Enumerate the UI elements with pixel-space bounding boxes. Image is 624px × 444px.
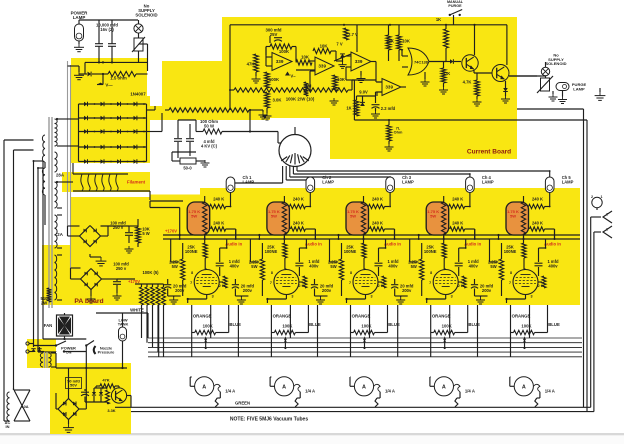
label 240K lower ch5 [532, 221, 543, 226]
svg-text:10K: 10K [320, 44, 329, 49]
svg-text:25V: 25V [270, 32, 278, 37]
svg-text:400v: 400v [230, 263, 240, 268]
resistor 2.25K ch4 [420, 243, 424, 296]
wire box bottom ch4 [418, 234, 444, 239]
rail B+ 235 [163, 234, 580, 236]
ground under 3.0K [263, 113, 272, 120]
svg-text:Ohm: Ohm [394, 131, 403, 135]
label 2A [56, 232, 64, 237]
bias resistor box ch1 [187, 202, 210, 235]
label 25K 100NE ch5 [504, 245, 517, 254]
wire channel verticals ch3 [330, 229, 395, 262]
wire tube top ch2 [285, 268, 287, 271]
capacitor 1mfd ch3 [375, 247, 387, 276]
wire channel boundary drop ch5 [478, 305, 530, 357]
low tank lamp [119, 327, 127, 341]
svg-text:LAMP: LAMP [243, 179, 255, 184]
highlight current board left extension [162, 61, 224, 118]
label AC IN [5, 420, 11, 429]
svg-text:240 K: 240 K [452, 221, 463, 226]
diode bias A [92, 388, 96, 402]
tube pin labels ch3 [349, 271, 384, 299]
label 240K lower ch1 [213, 221, 224, 226]
resistor vert in box ch1 [203, 196, 207, 243]
ground Q2 [501, 96, 510, 103]
svg-text:100NE: 100NE [185, 249, 198, 254]
svg-text:200v: 200v [175, 288, 185, 293]
label GREEN [235, 401, 250, 406]
nand gate 74C138 [408, 48, 446, 75]
svg-text:+170V: +170V [165, 229, 177, 234]
resistor 2.25K ch1 [181, 243, 185, 296]
ground under 47K [252, 76, 261, 83]
op-amp U1A 339 [272, 53, 292, 71]
wire channel boundary drop ch3 [318, 305, 370, 357]
resistor 3.3K [106, 390, 116, 413]
svg-text:PA board: PA board [74, 298, 103, 305]
svg-text:1/4 A: 1/4 A [225, 389, 235, 394]
meter M3 [354, 377, 373, 396]
pot wiper ch5 [523, 336, 526, 349]
label 25K 100NE ch1 [185, 245, 198, 254]
current board top rail [229, 24, 507, 91]
svg-text:LAMP: LAMP [482, 179, 494, 184]
junction dots rails ch1 [179, 238, 237, 240]
wire bias block [85, 386, 131, 409]
label 1/4A ch2 [305, 389, 315, 394]
svg-text:7: 7 [190, 281, 192, 285]
wire opamp mesh [296, 25, 406, 87]
svg-text:5W: 5W [271, 213, 277, 218]
resistor 10K U1A out [296, 55, 312, 66]
svg-text:10K: 10K [386, 39, 395, 44]
highlight power-on switch block [27, 339, 56, 368]
wire lamp-cap top bus [79, 20, 138, 36]
svg-text:74C138: 74C138 [414, 60, 429, 65]
resistor 240K upper ch3 [369, 204, 390, 208]
lamp Ch2 [306, 177, 315, 193]
resistor 240K upper ch4 [449, 204, 470, 208]
svg-text:Audio In: Audio In [544, 241, 561, 246]
transformer T1 secondary winding 5 [55, 255, 57, 300]
svg-text:8: 8 [430, 271, 432, 275]
svg-text:Audio In: Audio In [464, 241, 481, 246]
diode string row 5 [79, 159, 147, 164]
label 1/4A ch3 [385, 389, 395, 394]
ground far right [595, 88, 606, 100]
lamp Ch4 [466, 177, 475, 193]
label Ch2 LAMP [322, 175, 334, 184]
resistor 50W box [172, 158, 202, 171]
capacitor 2.2mfd [372, 105, 396, 111]
capacitor 20mfd ch2 [232, 279, 239, 296]
ground 4mfd [201, 160, 210, 167]
svg-text:240 K: 240 K [452, 197, 463, 202]
fan label [44, 323, 53, 328]
resistor 10K 5W [136, 227, 150, 244]
pot wiper ch4 [443, 336, 446, 349]
wire meter leads ch2 [270, 333, 300, 408]
resistor 25K 100NE ch5 [522, 243, 526, 269]
capacitor 4mfd B [186, 124, 194, 152]
lamp Ch1 [226, 177, 235, 193]
wire box bottom ch5 [497, 234, 523, 239]
svg-text:3: 3 [370, 295, 372, 299]
V- arrow U1A [285, 72, 296, 79]
variac T3 [4, 388, 30, 421]
svg-text:LAMP: LAMP [322, 179, 334, 184]
svg-text:100K: 100K [269, 77, 280, 82]
wire channel verticals ch2 [250, 229, 315, 262]
wire channel verticals ch4 [410, 229, 475, 262]
svg-text:Audio In: Audio In [384, 241, 401, 246]
wire lamp Ch2 lead [309, 193, 311, 208]
svg-text:100K: 100K [521, 324, 532, 329]
terminals AC aux [26, 342, 44, 353]
svg-text:A: A [202, 384, 206, 390]
svg-text:240 K: 240 K [213, 197, 224, 202]
svg-text:7 V: 7 V [336, 42, 342, 47]
label 2.25K 5W ch5 [488, 260, 499, 269]
label Ch1 LAMP [243, 175, 255, 184]
wire lower opamp [357, 92, 383, 103]
vacuum tube V0 envelope [279, 135, 311, 167]
label 100K (5) [142, 270, 159, 275]
svg-text:5W: 5W [510, 213, 516, 218]
transistor Q1 [462, 55, 478, 71]
svg-text:10K: 10K [337, 77, 346, 82]
svg-text:3: 3 [291, 295, 293, 299]
resistor 2K cathode ch5 [538, 276, 546, 288]
svg-text:ON: ON [66, 350, 72, 355]
resistor 75 Ohm [354, 113, 587, 151]
resistor 510 2W [41, 288, 52, 305]
capacitor 10000mfd B [108, 36, 116, 55]
tube V0 pins [278, 127, 309, 165]
resistor 240K lower ch4 [450, 227, 475, 239]
lamp Ch5 [545, 177, 554, 193]
capacitor 10000mfd A [95, 36, 103, 55]
svg-text:100NE: 100NE [265, 249, 278, 254]
vacuum tube V4 [433, 270, 458, 295]
label ORANGE ch1 [193, 314, 212, 319]
svg-text:4 KV (C): 4 KV (C) [201, 143, 218, 148]
bias resistor box ch5 [506, 202, 529, 235]
wire box bottom ch1 [179, 234, 205, 239]
resistor 2.25K ch5 [499, 243, 503, 296]
svg-text:A: A [362, 384, 366, 390]
meter M4 [434, 377, 453, 396]
svg-text:5W: 5W [411, 264, 417, 269]
label 2.25K 5W ch1 [169, 260, 180, 269]
svg-text:47K: 47K [102, 378, 109, 383]
bias resistor box ch2 [267, 202, 290, 235]
label Audio In ch5 [544, 241, 561, 246]
diode string row 3 [79, 129, 147, 134]
label 2.25K 5W ch3 [328, 260, 339, 269]
bridge rectifier BR1 [80, 226, 101, 247]
svg-text:240 K: 240 K [213, 221, 224, 226]
resistor 2K cathode ch4 [458, 276, 466, 288]
ground BR1 mid [90, 254, 106, 266]
label 25K 100NE ch4 [424, 245, 437, 254]
svg-text:100K: 100K [361, 324, 372, 329]
label 2.25K 5W ch2 [249, 260, 260, 269]
diode bias B [99, 388, 103, 402]
ground solenoid right [549, 91, 558, 101]
svg-text:LAMP: LAMP [402, 179, 414, 184]
resistor 10K U1B fb [313, 44, 336, 62]
label 1.75K 5W ch2 [268, 209, 280, 218]
wire right loop inner [591, 217, 601, 412]
capacitor 1mfd ch2 [295, 247, 307, 276]
resistor 240K upper ch2 [289, 204, 310, 208]
resistor vert in box ch3 [361, 196, 365, 243]
highlight rectifier 1N4007 block [71, 96, 150, 163]
resistor 47K input [247, 54, 259, 76]
svg-text:ORANGE: ORANGE [352, 314, 371, 319]
svg-text:339: 339 [385, 85, 393, 90]
op-amp U1C 339 [351, 52, 371, 71]
switch POWER ON [34, 341, 87, 353]
wire tube bottom ch3 [345, 295, 365, 304]
resistor 25K 100NE ch3 [362, 243, 366, 269]
svg-text:400v: 400v [309, 263, 319, 268]
svg-text:SOLENOID: SOLENOID [135, 13, 157, 18]
svg-text:400v: 400v [469, 263, 479, 268]
ground tube ch3 [315, 296, 328, 304]
resistor 10K pair A [386, 35, 395, 50]
svg-text:200v: 200v [402, 288, 412, 293]
label ORANGE ch2 [273, 314, 292, 319]
label 240K upper ch5 [532, 197, 543, 202]
svg-text:SOLENOID: SOLENOID [546, 61, 567, 66]
purge lamp [556, 83, 569, 91]
highlight filament block [62, 172, 150, 192]
resistor 2K cathode ch2 [299, 276, 307, 288]
diode Q2 emitter [503, 81, 508, 96]
wire tube fanout [230, 170, 551, 184]
meter M1 [195, 377, 214, 396]
svg-text:.2A: .2A [56, 232, 64, 237]
svg-text:100NE: 100NE [504, 249, 517, 254]
svg-text:5W: 5W [330, 264, 336, 269]
lamp Ch3 [386, 177, 395, 193]
resistor 2K cathode ch3 [378, 276, 386, 288]
svg-text:BLUE: BLUE [229, 322, 241, 327]
wire lamp Ch1 lead [230, 193, 232, 208]
ground tube ch1 [168, 296, 181, 304]
wire meter leads ch3 [350, 333, 380, 408]
label 1.5 ohm [110, 76, 127, 81]
svg-text:100NE: 100NE [424, 249, 437, 254]
svg-text:240 K: 240 K [532, 197, 543, 202]
diode string row 2 [79, 116, 147, 121]
vacuum tube V3 [353, 270, 378, 295]
wire far-left loop [4, 140, 34, 421]
ground BR2 cap [113, 290, 122, 300]
capacitor 100mfd-2 [113, 262, 129, 291]
svg-text:8: 8 [271, 271, 273, 275]
resistor vert in box ch5 [521, 196, 525, 243]
ground U1C [357, 71, 366, 83]
wire BR1 [68, 219, 139, 247]
wire meter leads ch4 [430, 333, 460, 408]
label BLUE ch5 [548, 322, 560, 327]
resistor 25K 100NE ch2 [283, 243, 287, 269]
svg-text:1/4 A: 1/4 A [385, 389, 395, 394]
resistor 240K upper ch5 [529, 204, 550, 208]
ground under gate [421, 72, 430, 86]
svg-text:339: 339 [318, 64, 326, 69]
highlight top-left power block [71, 58, 147, 96]
wire channel boundary drop ch4 [398, 305, 450, 357]
wire winding taps [56, 118, 73, 300]
svg-text:5W: 5W [430, 213, 436, 218]
svg-text:1/4 A: 1/4 A [465, 389, 475, 394]
wire low tank [122, 313, 124, 368]
svg-text:100K 2!W (10): 100K 2!W (10) [286, 97, 315, 102]
capacitor 1mfd ch4 [455, 247, 467, 276]
pot wiper ch3 [363, 336, 366, 349]
wire BR3 [56, 368, 86, 424]
label ORANGE ch5 [512, 314, 531, 319]
svg-text:Audio In: Audio In [305, 241, 322, 246]
label NOTE [230, 417, 308, 423]
resistor 10K U1B [333, 75, 346, 91]
svg-text:Audio In: Audio In [225, 241, 242, 246]
wire meter leads ch5 [510, 333, 540, 408]
svg-text:2.2 mfd: 2.2 mfd [381, 106, 396, 111]
transformer T1 secondary winding 1 [55, 119, 58, 146]
vacuum tube V5 [513, 270, 538, 295]
svg-text:200v: 200v [482, 288, 492, 293]
pot 100K ch2 [271, 324, 308, 335]
resistor 100 Ohm 50W [196, 110, 251, 134]
capacitor 300mfd 25V [265, 28, 282, 44]
svg-text:1/4 A: 1/4 A [305, 389, 315, 394]
bias top rail [56, 367, 127, 369]
svg-text:2W: 2W [41, 300, 47, 305]
label 1.75K 5W ch4 [427, 209, 439, 218]
bridge rectifier BR3 [58, 399, 79, 420]
wire Q1-Q2 [454, 15, 507, 73]
svg-text:BLUE: BLUE [548, 322, 560, 327]
wire notch joins [172, 120, 196, 161]
transistor Q2 [492, 65, 509, 82]
label POWER ON [61, 346, 76, 355]
wire box bottom ch3 [337, 234, 363, 239]
svg-text:ORANGE: ORANGE [193, 314, 212, 319]
svg-text:8: 8 [350, 271, 352, 275]
meter M5 [514, 377, 533, 396]
wire tube top ch1 [205, 268, 207, 271]
svg-text:5W: 5W [251, 264, 257, 269]
label Audio In ch3 [384, 241, 401, 246]
highlight PA board left edge [42, 245, 71, 305]
label V- top-left [105, 83, 113, 88]
wire orange drop ch3 [351, 305, 388, 333]
label Audio In ch4 [464, 241, 481, 246]
wire meter leads ch1 [190, 333, 220, 408]
label 240K upper ch3 [372, 197, 383, 202]
ground 2.2mfd [371, 108, 380, 118]
bridge rectifier BR2 [81, 269, 102, 290]
resistor 2K cathode ch1 [219, 276, 227, 288]
ground 4.7K [473, 99, 482, 106]
svg-text:8: 8 [510, 271, 512, 275]
V- arrow tap [97, 74, 104, 85]
capacitor 100mfd-1 [110, 221, 133, 244]
label 1/4A ch1 [225, 389, 235, 394]
power lamp bulb [75, 24, 84, 41]
bottom frame line [0, 433, 624, 444]
label 100K 2W (10) [286, 97, 315, 102]
resistor 100K divider [265, 72, 280, 88]
resistor 1.5 ohm [92, 71, 148, 76]
resistor 2.25K ch2 [260, 243, 264, 296]
capacitor 4mfd A [174, 120, 182, 152]
svg-text:250 v: 250 v [116, 266, 127, 271]
svg-text:5W: 5W [350, 213, 356, 218]
svg-text:2: 2 [606, 213, 608, 217]
resistor 47K bias [96, 378, 119, 389]
svg-text:240 K: 240 K [372, 221, 383, 226]
svg-text:LAMP: LAMP [573, 86, 585, 91]
svg-text:+170V: +170V [128, 279, 140, 284]
diode string row 1 [79, 102, 147, 107]
resistor 240K lower ch2 [290, 227, 315, 239]
svg-text:7: 7 [349, 281, 351, 285]
label PA board [74, 298, 103, 305]
svg-text:PURGE: PURGE [448, 4, 462, 8]
svg-text:NOTE: FIVE 5MJ6 Vacuum Tubes: NOTE: FIVE 5MJ6 Vacuum Tubes [230, 417, 308, 423]
vacuum tube V1 [194, 270, 219, 295]
label Current Board [467, 149, 511, 156]
tube pin labels ch4 [429, 271, 464, 299]
pot 100K ch5 [511, 324, 548, 335]
label 1.75K 5W ch5 [507, 209, 519, 218]
label 2.25K 5W ch4 [408, 260, 419, 269]
label 1/4A ch5 [545, 389, 555, 394]
wire AC feed pair [33, 160, 44, 352]
svg-text:339: 339 [355, 59, 363, 64]
junction dots rails ch2 [258, 238, 316, 240]
transformer T1 secondary winding 2 [55, 152, 58, 172]
supply solenoid K1 [132, 33, 145, 52]
capacitor 20mfd ch4 [391, 279, 398, 296]
rectifier rails [72, 104, 155, 162]
ground 47K Q1 [439, 87, 448, 94]
filament heater loops [73, 174, 128, 191]
resistor 1K purge [436, 17, 449, 62]
svg-text:8: 8 [191, 271, 193, 275]
label 240K upper ch2 [293, 197, 304, 202]
wire top-left node bus [85, 55, 148, 74]
svg-text:3.3K: 3.3K [107, 408, 115, 413]
diode string row 4 [79, 145, 147, 150]
wire BR2 [71, 268, 136, 303]
svg-text:100K: 100K [279, 49, 290, 54]
svg-text:100K: 100K [442, 324, 453, 329]
purge switch [447, 0, 464, 16]
label 240K lower ch2 [293, 221, 304, 226]
svg-text:1K: 1K [346, 106, 351, 111]
wire channel boundary drop ch1 [159, 305, 211, 357]
wire T2 out [51, 353, 56, 368]
svg-text:ORANGE: ORANGE [273, 314, 292, 319]
wire orange drop ch4 [431, 305, 468, 333]
